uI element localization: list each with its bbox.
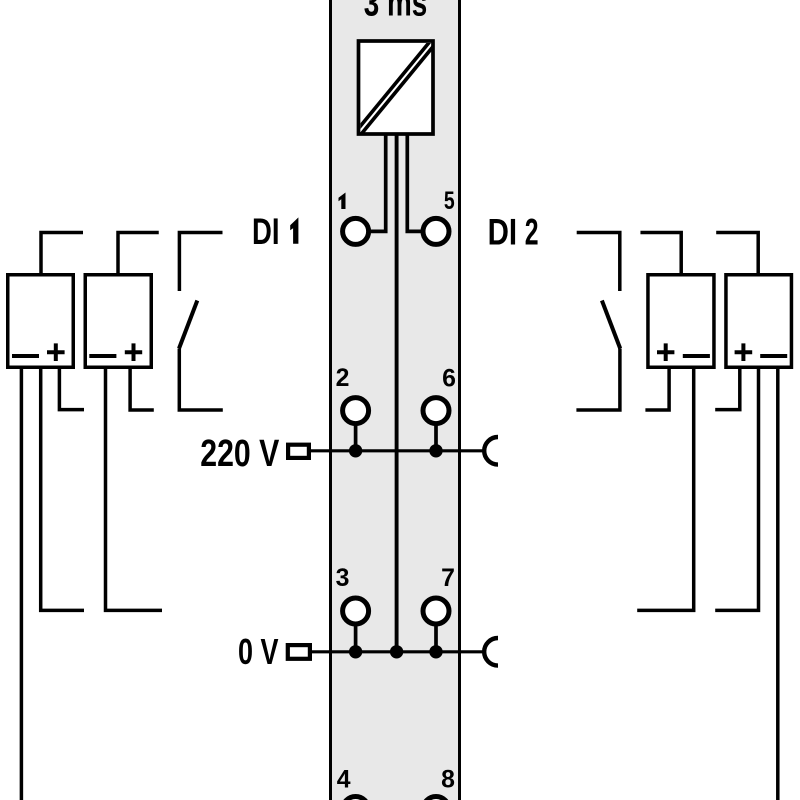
sensor B3 minus sign: [683, 354, 710, 358]
wire sensor B1 plus lead: [59, 367, 84, 410]
junction dot pin3/0V: [349, 645, 362, 658]
sensor B2 plus sign: [125, 343, 142, 361]
wire sensor B1 top lead: [41, 233, 83, 277]
wire sensor B4 minus lead (to bottom edge): [776, 367, 780, 800]
filter diagonal double line: [356, 39, 436, 135]
wire pin 7 stub: [434, 624, 438, 652]
wire sensor B1 minus lead (to bottom edge): [20, 367, 24, 800]
module body (gray band): [331, 0, 460, 800]
svg-text:6: 6: [442, 365, 456, 392]
junction dot pin7/0V: [429, 645, 442, 658]
0V rail wire: [312, 650, 485, 653]
sensor B3 body: [648, 275, 714, 368]
svg-text:DI: DI: [252, 211, 280, 252]
pin 1: [343, 218, 369, 244]
wire switch S2 bottom stub: [576, 349, 620, 411]
220V rail wire: [311, 449, 485, 452]
pin 5: [423, 218, 449, 244]
sensor B4 plus sign: [735, 343, 753, 361]
sensor B4 body: [726, 275, 792, 368]
svg-text:7: 7: [441, 565, 455, 592]
220V connector box: [288, 445, 309, 458]
svg-text:3 ms: 3 ms: [364, 0, 428, 25]
wire sensor B2 minus lead: [106, 367, 163, 610]
svg-text:5: 5: [444, 188, 455, 215]
wire pin 2 stub: [354, 423, 358, 451]
sensor B1 body: [8, 275, 74, 368]
pin 7: [423, 598, 449, 624]
sensor B1 minus sign: [12, 354, 39, 358]
pin 6: [423, 398, 449, 424]
svg-text:2: 2: [525, 211, 539, 252]
220V socket arc: [484, 437, 498, 465]
wire sensor B4 middle lead: [715, 367, 758, 610]
wire sensor B4 plus lead: [715, 367, 740, 410]
wire sensor B3 top lead: [640, 233, 681, 277]
pin 8: [423, 797, 449, 800]
pin 1 number: [339, 193, 346, 210]
wire box to pin 5: [407, 133, 423, 231]
pin 4: [343, 797, 369, 800]
wire sensor B3 plus lead: [645, 367, 669, 410]
sensor B4 minus sign: [760, 354, 787, 358]
svg-text:2: 2: [336, 365, 350, 392]
sensor B2 body: [85, 275, 151, 368]
pin 3: [343, 598, 369, 624]
svg-text:4: 4: [337, 767, 351, 794]
wire sensor B2 plus lead: [130, 367, 154, 410]
wire sensor B1 middle lead: [41, 367, 84, 610]
switch S1 blade: [179, 301, 197, 349]
internal bus wire (center): [395, 133, 399, 652]
svg-text:0 V: 0 V: [238, 631, 279, 672]
svg-text:220 V: 220 V: [200, 433, 280, 475]
junction dot pin2/220V: [349, 444, 362, 457]
0V socket arc: [484, 638, 498, 666]
junction dot pin6/220V: [429, 444, 442, 457]
svg-text:3: 3: [336, 565, 350, 592]
switch S2 blade: [602, 301, 620, 349]
wire pin 6 stub: [434, 423, 438, 451]
0V connector box: [288, 645, 310, 659]
sensor B2 minus sign: [89, 354, 116, 358]
sensor B1 plus sign: [47, 343, 65, 361]
sensor B3 plus sign: [657, 343, 674, 361]
wire switch S2 top stub: [577, 233, 620, 292]
pin 2: [343, 398, 369, 424]
wire switch S1 top stub: [179, 233, 222, 292]
junction dot bus/0V: [390, 645, 403, 658]
wire sensor B4 top lead: [716, 233, 758, 277]
wire pin 3 stub: [354, 624, 358, 652]
filter box U1: [359, 41, 434, 134]
wire box to pin 1: [369, 133, 386, 231]
wire sensor B3 minus lead: [637, 367, 694, 610]
svg-text:DI: DI: [488, 211, 517, 252]
svg-text:8: 8: [441, 767, 455, 794]
wire switch S1 bottom stub: [179, 349, 223, 411]
wire sensor B2 top lead: [118, 233, 159, 277]
